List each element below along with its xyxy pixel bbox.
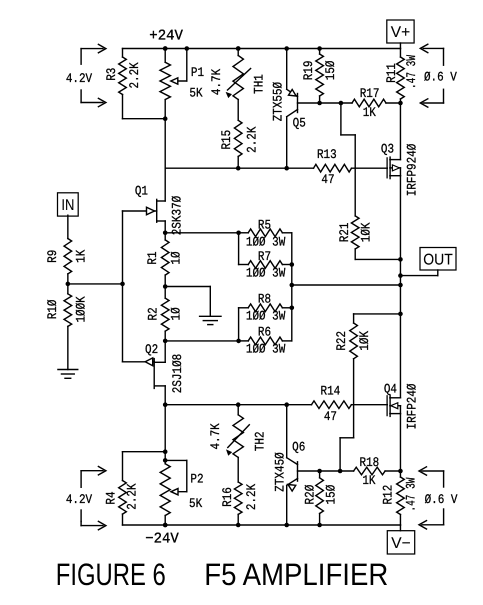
label R15: [219, 130, 234, 150]
annotation 4.2V bottom bracket: [81, 467, 106, 530]
svg-text:1ØØ 3W: 1ØØ 3W: [246, 308, 286, 323]
label R5: [258, 218, 271, 233]
svg-text:Q5: Q5: [293, 115, 306, 130]
node R17 right: [398, 101, 403, 106]
svg-text:FIGURE 6: FIGURE 6: [56, 557, 166, 592]
resistor R16: [234, 482, 242, 525]
label R2: [145, 307, 160, 320]
label 4.2V top: [66, 71, 92, 86]
node gate junction: [120, 282, 125, 287]
ground mid: [200, 316, 221, 324]
label R19 value: [323, 60, 338, 80]
label R1: [145, 251, 160, 264]
svg-text:IN: IN: [61, 197, 74, 214]
node output tee: [290, 283, 295, 288]
wire Q6 base row: [298, 470, 354, 472]
label Q6: [292, 440, 305, 455]
svg-text:R19: R19: [301, 61, 316, 81]
label R7 value: [246, 266, 286, 281]
power rail -24V: [123, 524, 401, 526]
wire bias row upper: [165, 167, 313, 169]
svg-text:R22: R22: [334, 331, 349, 351]
wire R9 to R10: [67, 274, 69, 294]
label Q5 type: [270, 82, 285, 122]
svg-text:R15: R15: [219, 130, 234, 150]
label R11 value: [404, 55, 419, 89]
svg-text:.47 3W: .47 3W: [403, 477, 418, 511]
svg-text:−24V: −24V: [145, 532, 179, 548]
label R9: [45, 250, 60, 263]
node R4 tee: [163, 449, 168, 454]
label R22: [334, 331, 349, 351]
svg-text:4.2V: 4.2V: [66, 492, 92, 507]
label R20: [303, 485, 318, 505]
svg-text:OUT: OUT: [423, 251, 453, 268]
resistor R11: [397, 49, 405, 104]
svg-text:15Ø: 15Ø: [323, 60, 338, 80]
node Q5 collector junction: [284, 166, 289, 171]
resistor R18: [354, 467, 401, 475]
wire ground branch: [165, 287, 210, 317]
label R15 value: [244, 126, 259, 152]
svg-text:2.2K: 2.2K: [124, 483, 139, 509]
label R10: [45, 299, 60, 319]
node TH1 top: [236, 46, 241, 51]
svg-text:Ø.6 V: Ø.6 V: [425, 492, 458, 507]
wire Q1 source to block: [165, 232, 238, 234]
label TH1: [252, 74, 267, 94]
node Q6 collector junction: [284, 402, 289, 407]
wire rail OUT to Q4 drain: [399, 285, 401, 398]
label R21: [337, 222, 352, 242]
wire block right: [291, 233, 293, 341]
node R20 top: [317, 469, 322, 474]
label R21 value: [359, 222, 374, 242]
svg-text:4.2V: 4.2V: [66, 71, 92, 86]
label R16: [220, 487, 235, 507]
svg-text:F5 AMPLIFIER: F5 AMPLIFIER: [204, 557, 388, 592]
label R6: [258, 325, 271, 340]
label Q1 type: [169, 196, 184, 236]
label Q2: [145, 342, 158, 357]
svg-text:Q1: Q1: [135, 183, 148, 198]
wire rail Q3 source to OUT: [399, 176, 401, 285]
resistor R17: [352, 99, 400, 107]
label R5 value: [246, 234, 286, 249]
node Q5 emitter rail: [284, 46, 289, 51]
label R11: [384, 63, 399, 83]
wire block left upper: [238, 233, 240, 265]
svg-text:Q2: Q2: [145, 342, 158, 357]
label R4: [104, 491, 119, 504]
label Q4: [384, 381, 397, 396]
label Q6 type: [272, 452, 287, 492]
svg-text:1K: 1K: [363, 105, 376, 120]
node OUT tap: [398, 273, 403, 278]
label R1 value: [168, 251, 183, 264]
svg-text:4.7K: 4.7K: [208, 423, 223, 449]
label P1 value: [189, 85, 202, 100]
svg-text:1ØØ 3W: 1ØØ 3W: [246, 234, 286, 249]
thermistor TH1: [226, 49, 251, 100]
annotation 4.2V top bracket: [81, 44, 106, 106]
transistor Q3: [387, 157, 400, 179]
svg-text:Q6: Q6: [292, 440, 305, 455]
node P1 top: [163, 46, 168, 51]
wire output row: [292, 284, 401, 286]
potentiometer P2: [160, 464, 170, 525]
svg-text:2.2K: 2.2K: [127, 62, 142, 88]
label R10 value: [73, 296, 88, 322]
label R17 value: [363, 105, 376, 120]
svg-text:P1: P1: [191, 65, 204, 80]
svg-text:R7: R7: [258, 249, 271, 264]
node R22 rail: [398, 312, 403, 317]
wire R2 to Q2: [164, 341, 166, 362]
node P1 bottom: [163, 116, 168, 121]
label R3 value: [127, 62, 142, 88]
label R13: [317, 147, 337, 162]
node R16 bottom: [236, 523, 241, 528]
node rail P2: [163, 523, 168, 528]
node ground tee: [163, 284, 168, 289]
wire Q5 emitter: [286, 49, 288, 90]
svg-text:2SJ1Ø8: 2SJ1Ø8: [170, 354, 185, 393]
wire Q2 drain to P2: [164, 405, 166, 464]
resistor R3: [119, 49, 127, 119]
svg-text:Q4: Q4: [384, 381, 397, 396]
resistor R10: [64, 294, 72, 327]
label R8: [258, 292, 271, 307]
node R15 bottom: [236, 166, 241, 171]
resistor R9: [64, 239, 72, 274]
label 0.6V bottom: [425, 492, 458, 507]
wire TH2 to R16: [237, 457, 239, 482]
svg-text:R11: R11: [384, 63, 399, 83]
label P2: [190, 472, 203, 487]
terminal IN: [58, 193, 79, 216]
transistor Q4: [387, 395, 400, 416]
label R8 value: [246, 308, 286, 323]
svg-text:R12: R12: [380, 485, 395, 505]
svg-text:IRFP924Ø: IRFP924Ø: [405, 144, 420, 197]
node TH2 top: [236, 402, 241, 407]
label R13 value: [321, 172, 334, 187]
svg-text:R8: R8: [258, 292, 271, 307]
svg-text:R13: R13: [317, 147, 337, 162]
node R22 branch: [338, 469, 343, 474]
resistor R12: [397, 471, 405, 525]
node input divider: [66, 282, 71, 287]
svg-text:R5: R5: [258, 218, 271, 233]
resistor R8: [239, 304, 292, 312]
svg-text:R9: R9: [45, 250, 60, 263]
wire Q5 base row: [298, 102, 353, 104]
label 4.2V bottom: [66, 492, 92, 507]
label R14: [321, 384, 341, 399]
svg-text:1ØK: 1ØK: [357, 331, 372, 351]
wire rail Q4 source to R18: [399, 414, 401, 471]
title: [56, 557, 389, 592]
label R4 value: [124, 483, 139, 509]
label +24V: [149, 29, 183, 45]
svg-text:4.7K: 4.7K: [209, 69, 224, 95]
svg-text:R3: R3: [104, 68, 119, 81]
label R9 value: [73, 250, 88, 263]
resistor R1: [161, 233, 169, 287]
svg-text:5K: 5K: [189, 496, 202, 511]
svg-text:R14: R14: [321, 384, 341, 399]
label R3: [104, 68, 119, 81]
label Q5: [293, 115, 306, 130]
terminal OUT: [420, 248, 456, 271]
transistor Q5: [287, 89, 298, 116]
wire Q6 collector: [286, 405, 288, 458]
wire IN to R9: [67, 215, 69, 238]
svg-text:47: 47: [321, 172, 334, 187]
svg-text:R17: R17: [360, 86, 380, 101]
wiper P1: [171, 49, 187, 85]
wire R4 top: [123, 451, 166, 453]
power rail +24V: [123, 48, 401, 50]
label R17: [360, 86, 380, 101]
svg-text:TH1: TH1: [252, 74, 267, 94]
node P2 bottom: [163, 523, 168, 528]
svg-text:47: 47: [324, 409, 337, 424]
node rail P1: [163, 46, 168, 51]
label Q3 type: [405, 144, 420, 197]
resistor R6: [239, 337, 292, 345]
svg-text:R16: R16: [220, 487, 235, 507]
label Q4 type: [405, 383, 420, 429]
wire TH1 to R15: [237, 100, 239, 121]
svg-text:R6: R6: [258, 325, 271, 340]
svg-text:ZTX55Ø: ZTX55Ø: [270, 82, 285, 122]
node Q2 source: [163, 339, 168, 344]
resistor R15: [234, 120, 242, 168]
svg-text:R2Ø: R2Ø: [303, 485, 318, 505]
svg-text:ZTX45Ø: ZTX45Ø: [272, 452, 287, 492]
svg-text:Q3: Q3: [381, 141, 394, 156]
wire Q5 collector: [286, 117, 288, 169]
svg-text:V+: V+: [391, 24, 410, 41]
ground input: [58, 370, 78, 379]
label TH2: [252, 431, 267, 451]
label R18 value: [362, 473, 375, 488]
resistor R2: [161, 287, 169, 341]
svg-text:R4: R4: [104, 491, 119, 504]
label R2 value: [168, 307, 183, 320]
label R16 value: [244, 484, 259, 510]
transistor Q1: [123, 119, 166, 233]
svg-text:V−: V−: [391, 535, 410, 552]
potentiometer P1: [160, 49, 170, 119]
node R6 left: [236, 339, 241, 344]
svg-text:P2: P2: [190, 472, 203, 487]
transistor Q6: [287, 458, 298, 491]
resistor R4: [119, 452, 127, 525]
node R20 bottom: [317, 523, 322, 528]
label R12: [380, 485, 395, 505]
node Q6 emitter rail: [284, 523, 289, 528]
svg-text:1Ø: 1Ø: [168, 251, 183, 264]
wire Q2 source to block: [165, 340, 238, 342]
node P1 wiper tap: [185, 46, 190, 51]
svg-text:R21: R21: [337, 222, 352, 242]
label R18: [360, 455, 380, 470]
svg-text:2.2K: 2.2K: [244, 484, 259, 510]
wire block left lower: [238, 308, 240, 341]
svg-text:1ØØK: 1ØØK: [73, 296, 88, 322]
label P2 value: [189, 496, 202, 511]
node Q2 drain junction: [163, 402, 168, 407]
svg-text:+24V: +24V: [149, 29, 183, 45]
svg-text:R18: R18: [360, 455, 380, 470]
node P2 wiper tee: [163, 458, 168, 463]
svg-text:Ø.6 V: Ø.6 V: [424, 70, 457, 85]
resistor R22: [340, 314, 400, 471]
annotation 0.6V top bracket: [420, 44, 443, 107]
node R5 left: [236, 231, 241, 236]
label R6 value: [246, 341, 286, 356]
terminal V-: [387, 525, 414, 554]
label R20 value: [324, 485, 339, 505]
label Q1: [135, 183, 148, 198]
node R18 right: [398, 469, 403, 474]
node R21 rail: [398, 257, 403, 262]
svg-text:15Ø: 15Ø: [324, 485, 339, 505]
svg-text:2SK37Ø: 2SK37Ø: [169, 196, 184, 236]
node output rail: [398, 283, 403, 288]
svg-text:1K: 1K: [362, 473, 375, 488]
resistor R21: [341, 103, 401, 259]
svg-text:1ØK: 1ØK: [359, 222, 374, 242]
label R19: [301, 61, 316, 81]
label R22 value: [357, 331, 372, 351]
svg-text:1ØØ 3W: 1ØØ 3W: [246, 341, 286, 356]
svg-text:R1: R1: [145, 251, 160, 264]
svg-text:1Ø: 1Ø: [168, 307, 183, 320]
svg-text:1K: 1K: [73, 250, 88, 263]
label Q2 type: [170, 354, 185, 393]
terminal V+: [387, 20, 414, 49]
label R7: [258, 249, 271, 264]
resistor R20: [316, 471, 324, 525]
node Q1 source: [163, 231, 168, 236]
wire R3 bottom: [123, 118, 166, 120]
node R21 branch: [339, 101, 344, 106]
label R12 value: [403, 477, 418, 511]
node rail TH1: [236, 46, 241, 51]
label 0.6V top: [424, 70, 457, 85]
transistor Q2: [123, 358, 166, 405]
label -24V: [145, 532, 179, 548]
resistor R14: [312, 401, 388, 409]
svg-text:IRFP24Ø: IRFP24Ø: [405, 383, 420, 429]
svg-text:2.2K: 2.2K: [244, 126, 259, 152]
label TH1 value: [209, 69, 224, 95]
label R14 value: [324, 409, 337, 424]
label TH2 value: [208, 423, 223, 449]
annotation 0.6V bottom bracket: [419, 467, 444, 529]
node R19 bottom: [317, 101, 322, 106]
svg-text:TH2: TH2: [252, 431, 267, 451]
wire input node to gate column: [68, 283, 123, 285]
node bias row left: [164, 118, 166, 120]
node R8 right: [290, 306, 295, 311]
node R7 right: [290, 262, 295, 267]
svg-text:R1Ø: R1Ø: [45, 299, 60, 319]
node R19 top: [317, 46, 322, 51]
svg-text:R2: R2: [145, 307, 160, 320]
svg-text:1ØØ 3W: 1ØØ 3W: [246, 266, 286, 281]
resistor R7: [239, 261, 292, 269]
wire gate column: [122, 211, 124, 362]
label Q3: [381, 141, 394, 156]
svg-text:.47 3W: .47 3W: [404, 55, 419, 89]
wire rail R17 to Q3 drain: [399, 103, 401, 160]
wiper P2: [165, 460, 187, 495]
wire OUT to rail: [400, 270, 437, 276]
resistor R13: [314, 164, 388, 172]
wire Q6 emitter: [286, 485, 288, 525]
thermistor TH2: [226, 405, 249, 458]
wire R10 to ground: [67, 326, 69, 369]
resistor R19: [316, 49, 324, 104]
svg-text:5K: 5K: [189, 85, 202, 100]
label P1: [191, 65, 204, 80]
resistor R5: [239, 229, 292, 237]
wire bias row lower: [165, 404, 311, 406]
